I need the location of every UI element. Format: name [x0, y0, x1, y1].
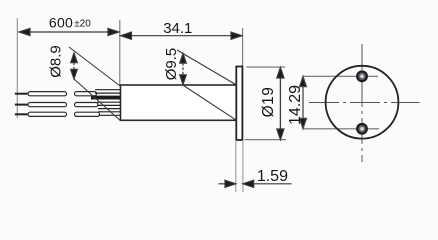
sensor body cylinder (side view) [121, 85, 237, 120]
Ø8.9 upper oblique extension line [69, 47, 121, 87]
horizontal centerline of end view [309, 102, 420, 104]
svg-text:Ø19: Ø19 [260, 87, 277, 118]
cable bundle dark conductor band [91, 96, 121, 100]
14.29 bottom extension line [303, 128, 379, 130]
wire lead 2 insulation (left segment) [28, 103, 67, 107]
dimension 34.1 line [121, 32, 243, 39]
wire lead 2 insulation (right segment after cable break) [75, 103, 99, 107]
cable bundle entering body: stacked conductor lines [95, 90, 121, 116]
wire lead 1 insulation (left segment) [28, 92, 67, 96]
svg-text:Ø8.9: Ø8.9 [48, 45, 65, 78]
dimension 600±20 line [19, 28, 119, 35]
1.59 right extension line [242, 140, 244, 192]
mounting flange (side view) [236, 67, 242, 141]
wire lead 2 bare tip [15, 104, 29, 106]
Ø19 top extension line [246, 66, 285, 68]
wire lead 3 insulation (right segment after cable break) [75, 112, 100, 116]
wire lead 1 bare tip [15, 93, 29, 95]
wire lead 1 insulation (right segment after cable break) [75, 92, 97, 96]
extension line left of 600 dimension [16, 18, 18, 118]
Ø9.5 lower oblique extension line [184, 86, 237, 121]
Ø19 bottom extension line [245, 139, 286, 141]
wire lead 3 bare tip [15, 113, 29, 115]
svg-text:34.1: 34.1 [163, 20, 192, 37]
Ø19 dimension line and arrows [277, 67, 284, 139]
Ø8.9 lower oblique extension line [74, 79, 121, 121]
1.59 dimension lines and arrows (outside) [219, 180, 292, 187]
svg-text:±20: ±20 [74, 19, 91, 30]
svg-text:1.59: 1.59 [257, 168, 288, 185]
extension line shared between 600 and 34.1 dimensions [119, 20, 121, 85]
wire lead 3 insulation (left segment) [28, 112, 67, 116]
1.59 left extension line [235, 140, 237, 192]
Ø9.5 upper oblique extension line [177, 50, 237, 85]
14.29 top extension line [303, 75, 378, 77]
svg-text:600: 600 [49, 15, 73, 31]
svg-text:Ø9.5: Ø9.5 [163, 48, 180, 81]
top mounting hole [357, 72, 367, 82]
bottom mounting hole [357, 124, 367, 134]
extension line right of 34.1 dimension [242, 28, 244, 67]
14.29 dimension line and arrows [300, 76, 307, 129]
Ø9.5 dimension arrows [180, 54, 187, 85]
vertical centerline of end view [361, 44, 363, 162]
Ø8.9 dimension arrows [71, 53, 78, 79]
svg-text:14.29: 14.29 [287, 85, 304, 125]
flange end view circle (Ø19) [326, 66, 399, 139]
